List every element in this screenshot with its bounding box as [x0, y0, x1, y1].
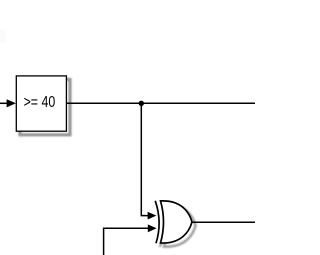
- comparator block ">= 40": [16, 76, 66, 131]
- arrowhead into XOR top input: [148, 212, 157, 220]
- wire: branch from junction down to XOR gate top input: [141, 103, 148, 215]
- wire: XOR output to right edge: [192, 221, 255, 223]
- wire: comparator output to right edge: [67, 102, 255, 104]
- svg-text:>= 40: >= 40: [24, 93, 56, 111]
- junction dot: [139, 101, 144, 106]
- XOR gate U1: body: [161, 201, 193, 243]
- wire: second input from bottom edge up to XOR bottom input: [104, 228, 149, 255]
- XOR gate U1: extra input arc: [155, 201, 159, 244]
- comparator block shadow: [20, 80, 70, 135]
- XOR gate shadow: [160, 204, 196, 246]
- arrowhead into XOR bottom input: [148, 224, 157, 232]
- arrowhead into comparator input port: [7, 99, 16, 107]
- wire: input into comparator from left edge: [0, 102, 8, 104]
- faint shadow remnant of off-screen block at left edge: [0, 30, 5, 43]
